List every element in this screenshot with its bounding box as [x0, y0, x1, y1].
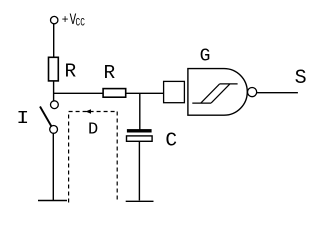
svg-text:S: S	[295, 67, 307, 90]
svg-text:I: I	[16, 108, 29, 129]
svg-text:D: D	[88, 121, 98, 140]
svg-text:CC: CC	[76, 17, 86, 29]
svg-text:C: C	[165, 129, 177, 151]
svg-text:+: +	[62, 14, 69, 27]
svg-text:G: G	[200, 47, 211, 67]
svg-text:R: R	[65, 61, 77, 83]
svg-text:R: R	[104, 62, 116, 84]
